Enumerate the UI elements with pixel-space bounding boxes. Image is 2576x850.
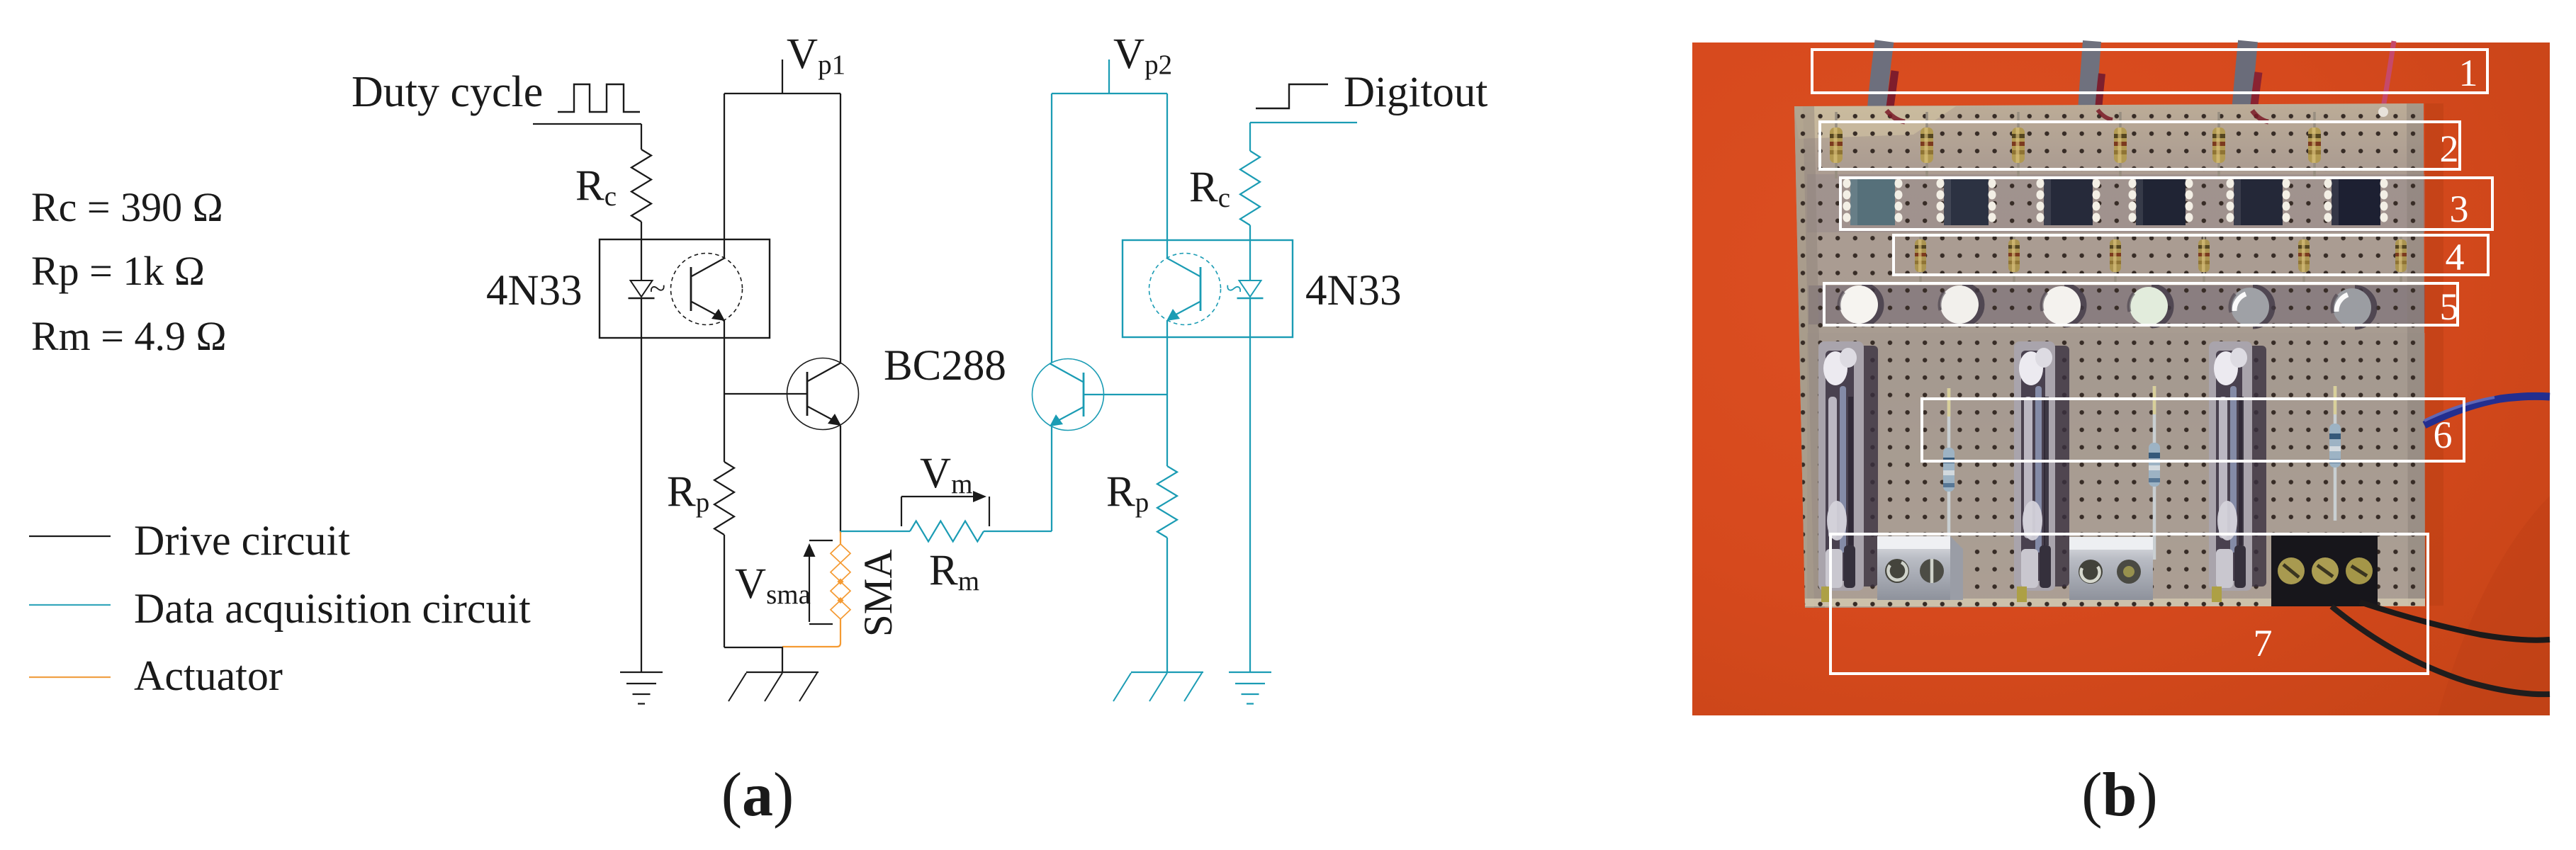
wire: Q1 base <box>724 393 807 395</box>
wire: SMA bottom to ground node (orange) <box>782 619 840 647</box>
svg-text:4N33: 4N33 <box>1305 267 1402 314</box>
svg-text:Actuator: Actuator <box>134 652 283 699</box>
svg-text:4: 4 <box>2446 236 2465 278</box>
resistor Rp (left) <box>714 462 734 535</box>
node Vp1 supply stem <box>782 59 783 93</box>
op-amp 4N33 box (left optocoupler U1) <box>600 239 770 338</box>
wire: duty cycle input to Rc <box>533 123 641 125</box>
actuator SMA element (orange diamond chain) <box>840 531 841 544</box>
svg-text:BC288: BC288 <box>884 342 1006 390</box>
resistor Rp (right) <box>1157 466 1177 538</box>
legend data acquisition swatch line (cyan) <box>29 604 111 606</box>
annotation box 2 <box>1820 122 2460 169</box>
wire: Vp2 rail horizontal <box>1052 93 1167 94</box>
wire: Rp (right) down to chassis ground <box>1166 538 1168 672</box>
wire: rail to U1 collector <box>724 93 725 258</box>
ground chassis (right) <box>1131 671 1203 673</box>
wire: LED cathode down to earth ground (right) <box>1249 298 1251 672</box>
photo background (orange mat) <box>1692 42 2550 715</box>
transistor phototransistor of U1 <box>671 254 743 325</box>
resistor Rm <box>910 521 984 542</box>
optocoupler light squiggle (left) <box>650 282 665 295</box>
node Vm bracket and arrow <box>901 497 902 526</box>
row of IC chips (band 3) <box>1850 177 1895 225</box>
node Vp2 supply stem <box>1108 59 1110 93</box>
ground chassis (center, under SMA) <box>782 647 783 672</box>
row of relays and resistors (band 6) <box>1860 346 1878 586</box>
legend actuator swatch line (orange) <box>29 676 111 678</box>
wire: digitout line (cyan) <box>1250 122 1357 123</box>
wire: Rc (right) to LED anode <box>1249 225 1251 280</box>
row of resistors (band 4) <box>1919 234 1922 283</box>
wire: U2 emitter down through base node to Rp (right) <box>1166 320 1168 466</box>
annotation box 6 <box>1922 399 2464 461</box>
wire: bottom node horizontal to ground stem <box>724 647 782 648</box>
row of resistors (band 2) <box>1835 112 1838 178</box>
resistor Rc (right) <box>1240 151 1260 225</box>
annotation box 3 <box>1840 178 2492 229</box>
svg-text:2: 2 <box>2440 127 2459 170</box>
svg-text:Digitout: Digitout <box>1344 69 1487 116</box>
wire: Q1 collector to Vp1 rail <box>840 93 841 363</box>
svg-text:(b): (b) <box>2081 761 2158 829</box>
annotation box 4 <box>1894 235 2488 275</box>
black wire (bottom right) <box>2360 602 2550 640</box>
perfboard <box>1794 103 2425 608</box>
node Vsma bracket and arrow <box>809 540 833 541</box>
svg-text:SMA: SMA <box>856 549 901 637</box>
gray cable 1 (top) <box>1877 41 1884 112</box>
svg-text:6: 6 <box>2434 414 2453 456</box>
diode LED of U1 <box>631 280 653 297</box>
wire: LED cathode down to ground <box>641 298 642 672</box>
red wire tails at board top <box>1886 110 1905 122</box>
legend drive circuit swatch line <box>29 535 111 537</box>
wire: Rp to bottom node <box>724 535 725 647</box>
wire: Rc to LED anode <box>641 222 642 280</box>
transistor phototransistor of U2 (mirrored) <box>1149 254 1221 325</box>
annotation box 1 <box>1812 50 2487 93</box>
resistor Rc (left) <box>631 149 651 222</box>
diode LED of U2 <box>1239 280 1261 297</box>
wire: Q2 base <box>1084 394 1167 395</box>
annotation box 5 <box>1824 283 2458 325</box>
annotation box 7 <box>1830 534 2428 674</box>
svg-text:4N33: 4N33 <box>486 267 583 314</box>
svg-text:Duty cycle: Duty cycle <box>351 68 543 116</box>
svg-text:1: 1 <box>2459 52 2478 94</box>
svg-text:Rm = 4.9 Ω: Rm = 4.9 Ω <box>31 313 227 359</box>
ground earth (right) <box>1229 671 1271 673</box>
red wire 4 (top) <box>2383 41 2394 108</box>
transistor BC288 Q1 <box>787 358 859 430</box>
row of capacitors (band 5) <box>1862 285 1881 324</box>
gray cable 3 (top) <box>2242 41 2248 112</box>
svg-text:7: 7 <box>2254 622 2273 664</box>
svg-text:5: 5 <box>2440 285 2459 328</box>
svg-text:Rp = 1k Ω: Rp = 1k Ω <box>31 248 205 294</box>
svg-text:Drive circuit: Drive circuit <box>134 517 350 564</box>
transistor BC288 Q2 (mirrored) <box>1033 359 1104 431</box>
wire: Rm to Q2 emitter (cyan) <box>984 531 1052 532</box>
svg-text:Data acquisition circuit: Data acquisition circuit <box>134 585 531 632</box>
duty-cycle pulse waveform icon <box>558 84 640 112</box>
blue wire (right) <box>2424 396 2550 425</box>
wire: rail down to U2 collector <box>1166 93 1168 258</box>
optocoupler light squiggle (right) <box>1226 282 1242 295</box>
op-amp 4N33 box (right optocoupler U2) <box>1123 240 1293 337</box>
wire: Vp1 rail horizontal <box>724 93 840 94</box>
terminal block 2 (silver) <box>2069 537 2153 600</box>
wire: U1 emitter down to Rp and Q1 base node <box>724 320 725 462</box>
wire: SMA top node to Rm (cyan) <box>840 531 910 532</box>
board shading bands <box>1794 106 1956 139</box>
ground earth (left, under LED) <box>620 671 663 673</box>
terminal block 1 (silver) <box>1877 536 1950 600</box>
digitout step waveform icon <box>1256 84 1328 108</box>
gray cable 2 (top) <box>2087 41 2092 110</box>
svg-text:3: 3 <box>2450 188 2469 230</box>
wire: Q2 emitter down to Rm node <box>1051 426 1052 531</box>
terminal block 3 (black, 3 screws) <box>2271 533 2378 606</box>
wire: rail down to Q2 collector <box>1051 93 1052 363</box>
perfboard hole grid <box>1794 103 2425 608</box>
svg-text:Rc = 390 Ω: Rc = 390 Ω <box>31 184 223 230</box>
wire: Q1 emitter down to SMA node <box>840 426 841 533</box>
svg-text:(a): (a) <box>721 761 794 829</box>
